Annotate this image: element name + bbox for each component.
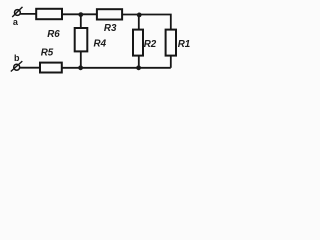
node D junction below R4 xyxy=(78,65,83,70)
wire a to R6 xyxy=(20,13,36,15)
terminal a xyxy=(12,7,22,17)
svg-text:R6: R6 xyxy=(47,29,60,40)
wire R4 to bottom rail xyxy=(80,51,82,67)
svg-text:b: b xyxy=(14,53,20,63)
svg-text:R1: R1 xyxy=(178,39,191,50)
wire R1 to bottom rail xyxy=(170,56,172,68)
node C junction below R2 xyxy=(136,65,141,70)
svg-text:R5: R5 xyxy=(41,47,54,58)
node B junction above R2 xyxy=(137,13,142,18)
resistor R1 xyxy=(166,30,176,56)
resistor R4 xyxy=(75,28,88,51)
terminal b xyxy=(11,61,22,71)
bottom rail wire R5 to R1 xyxy=(62,67,171,69)
wire node B to R2 xyxy=(138,15,140,30)
wire R6 to node A xyxy=(62,13,97,15)
wire R3 to node B xyxy=(122,14,139,16)
wire b to R5 xyxy=(20,67,40,69)
wire node A to R4 xyxy=(80,15,82,29)
svg-text:R2: R2 xyxy=(144,39,157,50)
resistor R6 xyxy=(36,9,62,19)
resistor R2 xyxy=(133,30,143,56)
wire R2 to node C xyxy=(138,56,140,68)
node A junction above R4 xyxy=(78,12,83,17)
wire node B to R1 xyxy=(139,15,171,30)
resistor R5 xyxy=(40,63,62,73)
svg-text:R4: R4 xyxy=(94,38,107,49)
svg-text:R3: R3 xyxy=(104,23,117,34)
resistor R3 xyxy=(97,9,122,19)
